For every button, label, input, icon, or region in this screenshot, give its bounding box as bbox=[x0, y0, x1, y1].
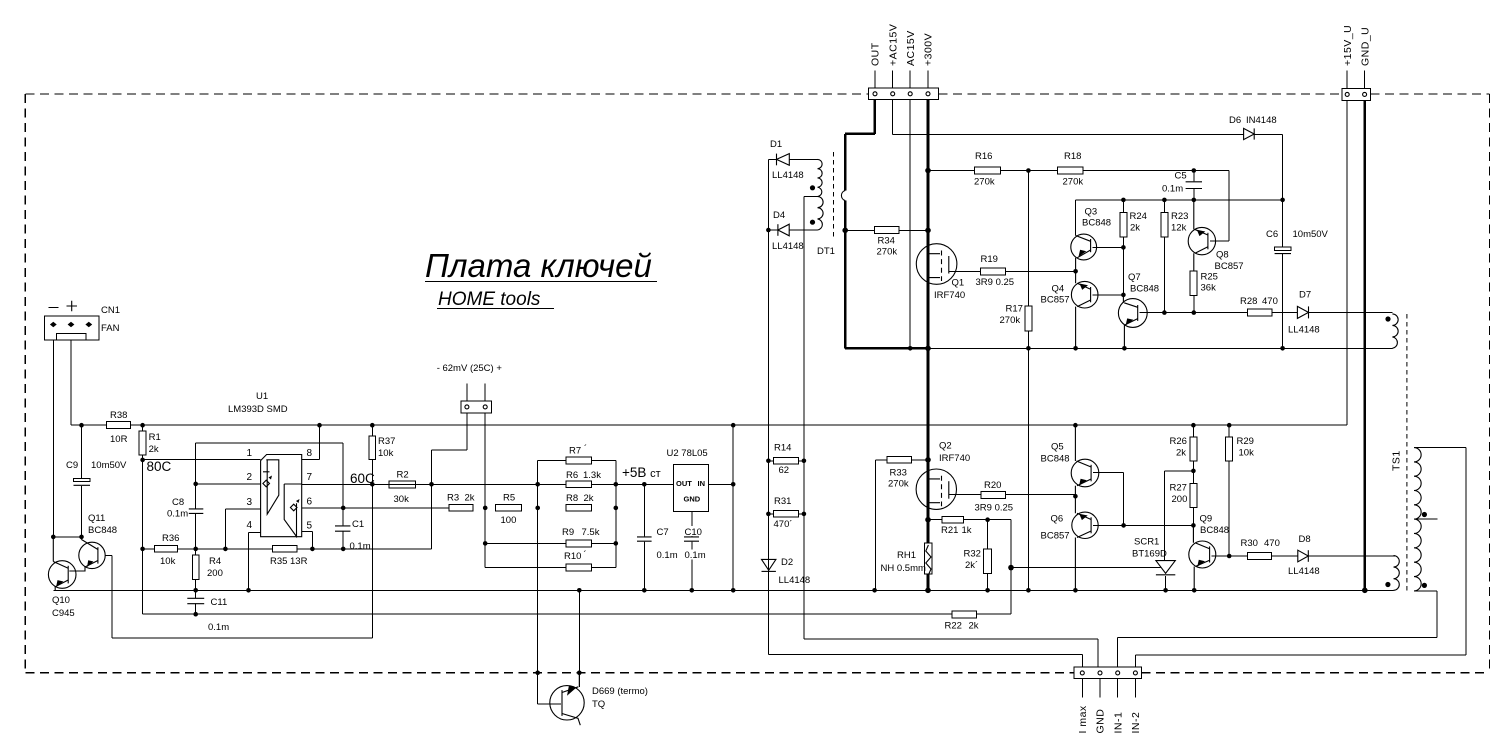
transformer TS1 secondary winding bbox=[1414, 448, 1437, 591]
wire U1 pin1 row bbox=[143, 459, 261, 461]
svg-text:Q6: Q6 bbox=[1051, 514, 1064, 525]
svg-text:13R: 13R bbox=[290, 556, 308, 567]
svg-text:C9: C9 bbox=[66, 460, 78, 471]
diode D1 LL4148 bbox=[768, 139, 817, 181]
svg-text:Q1: Q1 bbox=[952, 278, 965, 289]
svg-text:TS1: TS1 bbox=[1391, 450, 1403, 471]
svg-text:C11: C11 bbox=[211, 597, 228, 608]
capacitor C11 bbox=[187, 590, 230, 633]
svg-text:+AC15V: +AC15V bbox=[887, 24, 899, 66]
resistor R8 bbox=[566, 493, 594, 511]
capacitor C5 bbox=[1162, 171, 1203, 200]
svg-text:IN4148: IN4148 bbox=[1246, 115, 1277, 126]
svg-text:10k: 10k bbox=[378, 448, 394, 459]
wire R25 base row bbox=[1164, 312, 1247, 314]
svg-text:R6: R6 bbox=[566, 470, 578, 481]
svg-text:10k: 10k bbox=[160, 556, 176, 567]
wire R7 row bbox=[538, 461, 616, 568]
resistor R17 bbox=[1000, 171, 1032, 591]
wire +15V rail bbox=[71, 101, 1347, 426]
voltage regulator U2 78L05 bbox=[667, 448, 709, 512]
wire U2 IN column bbox=[709, 425, 734, 590]
svg-text:D6: D6 bbox=[1229, 115, 1241, 126]
resistor R25 bbox=[1190, 271, 1218, 313]
svg-text:1.3k: 1.3k bbox=[583, 470, 601, 481]
wire CN1 pin1 column bbox=[53, 340, 81, 537]
svg-text:0.1m: 0.1m bbox=[167, 509, 188, 520]
svg-text:NH 0.5mm: NH 0.5mm bbox=[881, 563, 926, 574]
svg-text:R31: R31 bbox=[774, 496, 791, 507]
svg-text:R28: R28 bbox=[1240, 296, 1257, 307]
svg-text:R10: R10 bbox=[564, 551, 581, 562]
resistor R3 bbox=[447, 493, 475, 512]
resistor R29 bbox=[1226, 425, 1254, 556]
svg-text:´: ´ bbox=[584, 550, 587, 561]
resistor R1 bbox=[139, 425, 161, 614]
svg-text:2k´: 2k´ bbox=[965, 560, 978, 571]
op-amp U1 LM393D bbox=[228, 391, 313, 537]
svg-text:BC848: BC848 bbox=[1082, 218, 1111, 229]
title Плата ключей bbox=[425, 247, 657, 284]
wire 300V bottom row bbox=[845, 347, 1392, 350]
svg-text:U2 78L05: U2 78L05 bbox=[667, 448, 708, 459]
svg-text:CN1: CN1 bbox=[101, 305, 120, 316]
svg-text:IRF740: IRF740 bbox=[934, 290, 965, 301]
wire pin2 feedback loop bbox=[196, 443, 344, 549]
wire TQ collector column bbox=[578, 590, 580, 687]
svg-text:C945: C945 bbox=[52, 608, 75, 619]
resistor R2 bbox=[389, 470, 416, 506]
resistor R5 bbox=[496, 493, 522, 527]
wire 60C base loop bbox=[105, 555, 372, 638]
transistor Q11 BC848 bbox=[69, 513, 117, 571]
svg-text:U1: U1 bbox=[256, 391, 268, 402]
svg-text:R18: R18 bbox=[1064, 151, 1081, 162]
svg-text:36k: 36k bbox=[1201, 283, 1217, 294]
svg-text:BC848: BC848 bbox=[1041, 454, 1070, 465]
diode D8 LL4148 bbox=[1288, 534, 1396, 577]
resistor R20 bbox=[975, 480, 1076, 514]
svg-text:BC848: BC848 bbox=[1200, 525, 1229, 536]
svg-text:D669 (termo): D669 (termo) bbox=[592, 686, 648, 697]
svg-text:R14: R14 bbox=[774, 443, 791, 454]
svg-text:LM393D SMD: LM393D SMD bbox=[228, 404, 288, 415]
svg-text:SCR1: SCR1 bbox=[1134, 537, 1159, 548]
svg-text:GND: GND bbox=[1095, 709, 1107, 734]
wire +15V_U column bbox=[1346, 101, 1348, 426]
svg-text:2: 2 bbox=[247, 472, 253, 483]
wire U1 pin5 bbox=[302, 532, 313, 549]
transistor Q1 IRF740 bbox=[916, 244, 980, 301]
diode D4 LL4148 bbox=[768, 210, 817, 252]
svg-text:TQ: TQ bbox=[592, 699, 605, 710]
svg-text:R26: R26 bbox=[1170, 436, 1187, 447]
resistor R24 bbox=[1120, 200, 1147, 295]
svg-text:Q2: Q2 bbox=[939, 441, 952, 452]
resistor R37 bbox=[369, 425, 396, 638]
svg-text:R19: R19 bbox=[981, 254, 998, 265]
thyristor SCR1 BT169D bbox=[1132, 537, 1175, 591]
svg-text:D8: D8 bbox=[1299, 534, 1311, 545]
resistor R36 bbox=[155, 533, 180, 567]
svg-text:7: 7 bbox=[307, 472, 313, 483]
resistor R14 bbox=[774, 443, 799, 477]
svg-text:R4: R4 bbox=[209, 556, 221, 567]
svg-text:LL4148: LL4148 bbox=[779, 575, 811, 586]
svg-text:IRF740: IRF740 bbox=[939, 453, 970, 464]
transformer TS1 feedback winding bbox=[1385, 314, 1398, 348]
capacitor C8 bbox=[167, 484, 204, 549]
svg-text:Q7: Q7 bbox=[1128, 272, 1141, 283]
svg-text:10k: 10k bbox=[1239, 448, 1255, 459]
svg-text:R1: R1 bbox=[149, 432, 161, 443]
svg-text:0.1m: 0.1m bbox=[657, 550, 678, 561]
svg-text:Q9: Q9 bbox=[1200, 514, 1213, 525]
transistor Q8 BC857 bbox=[1188, 171, 1243, 273]
wire R10 row bbox=[485, 566, 616, 568]
wire -62mV pin2 column A bbox=[485, 413, 566, 567]
wire U1 pin8 bbox=[302, 425, 320, 459]
svg-text:0.1m: 0.1m bbox=[350, 541, 371, 552]
resistor R35 bbox=[270, 546, 308, 567]
svg-text:R25: R25 bbox=[1201, 272, 1218, 283]
svg-text:Плата ключей: Плата ключей bbox=[425, 247, 652, 284]
svg-text:BC848: BC848 bbox=[88, 525, 117, 536]
wire rail3 row bbox=[143, 568, 1011, 615]
svg-text:C6: C6 bbox=[1266, 229, 1278, 240]
svg-text:D4: D4 bbox=[773, 210, 785, 221]
svg-text:IN-2: IN-2 bbox=[1130, 712, 1142, 734]
border dashed frame bbox=[25, 94, 1489, 673]
svg-text:FAN: FAN bbox=[101, 323, 120, 334]
wire R9 row bbox=[485, 542, 616, 544]
svg-text:270k: 270k bbox=[1063, 177, 1084, 188]
svg-text:- 62mV (25C) +: - 62mV (25C) + bbox=[437, 363, 503, 374]
svg-text:2k: 2k bbox=[465, 493, 475, 504]
resistor R26 bbox=[1170, 425, 1197, 483]
wire U1 pin3 bbox=[225, 509, 260, 549]
wire +5V row bbox=[372, 483, 673, 485]
svg-text:OUT: OUT bbox=[676, 479, 692, 488]
resistor R4 bbox=[192, 549, 223, 590]
connector CN2 OUT/+AC15V/AC15V/+300V bbox=[869, 24, 939, 100]
connector CN4 I max/GND/IN-1/IN-2 bbox=[1074, 667, 1142, 733]
thermistor RH1 NH 0.5mm bbox=[881, 520, 933, 591]
svg-text:IN-1: IN-1 bbox=[1112, 712, 1124, 734]
resistor R31 bbox=[774, 496, 799, 530]
transistor Q4 BC857 bbox=[1041, 271, 1124, 348]
svg-text:4: 4 bbox=[247, 520, 253, 531]
svg-text:100: 100 bbox=[501, 515, 517, 526]
resistor R18 bbox=[1058, 151, 1229, 188]
wire secondary bottom to IN-1 bbox=[1118, 591, 1437, 667]
resistor R30 bbox=[1241, 538, 1298, 559]
svg-text:Q11: Q11 bbox=[88, 513, 105, 524]
wire +300V thick column bbox=[927, 99, 930, 590]
wire rail1 inverting row bbox=[143, 484, 432, 549]
svg-text:62: 62 bbox=[779, 465, 790, 476]
svg-text:C8: C8 bbox=[172, 497, 184, 508]
svg-text:R3: R3 bbox=[447, 493, 459, 504]
resistor R16 bbox=[928, 151, 1058, 188]
svg-text:R34: R34 bbox=[878, 236, 895, 247]
svg-text:R9: R9 bbox=[562, 527, 574, 538]
svg-text:200: 200 bbox=[207, 568, 223, 579]
resistor R38 bbox=[106, 410, 130, 445]
svg-text:3: 3 bbox=[247, 497, 253, 508]
capacitor C6 bbox=[1266, 200, 1329, 348]
svg-text:470: 470 bbox=[1264, 538, 1280, 549]
svg-text:0.1m: 0.1m bbox=[685, 550, 706, 561]
svg-text:R16: R16 bbox=[975, 151, 992, 162]
wire SCR anode link bbox=[1165, 471, 1194, 561]
svg-text:3R9 0.25: 3R9 0.25 bbox=[975, 503, 1014, 514]
svg-text:10R: 10R bbox=[110, 434, 128, 445]
capacitor C1 bbox=[334, 519, 371, 552]
resistor R34 bbox=[845, 226, 928, 257]
diode D2 LL4148 bbox=[762, 557, 811, 586]
svg-text:R24: R24 bbox=[1130, 211, 1147, 222]
svg-text:Q5: Q5 bbox=[1051, 442, 1064, 453]
wire U1 pin4 bbox=[249, 533, 261, 591]
svg-text:R37: R37 bbox=[378, 436, 395, 447]
svg-text:3R9 0.25: 3R9 0.25 bbox=[976, 277, 1015, 288]
resistor R27 bbox=[1170, 483, 1197, 543]
transistor Q9 BC848 bbox=[1189, 514, 1248, 591]
svg-text:2k: 2k bbox=[969, 621, 979, 632]
resistor R10 bbox=[564, 550, 591, 571]
resistor R23 bbox=[1161, 200, 1188, 313]
svg-text:´: ´ bbox=[584, 444, 587, 455]
svg-text:HOME tools: HOME tools bbox=[438, 289, 541, 310]
svg-text:D1: D1 bbox=[770, 139, 782, 150]
wire OUT thick trace bbox=[845, 99, 875, 348]
connector CN3 +15V_U/GND_U bbox=[1342, 25, 1372, 101]
svg-text:30k: 30k bbox=[394, 494, 410, 505]
svg-text:R27: R27 bbox=[1170, 483, 1187, 494]
wire secondary top to IN-2 bbox=[1135, 448, 1466, 668]
svg-text:C1: C1 bbox=[352, 519, 364, 530]
svg-text:Q8: Q8 bbox=[1216, 250, 1229, 261]
svg-text:BC857: BC857 bbox=[1041, 531, 1070, 542]
svg-text:R29: R29 bbox=[1237, 436, 1254, 447]
svg-text:R21: R21 bbox=[941, 525, 958, 536]
svg-text:BT169D: BT169D bbox=[1132, 549, 1167, 560]
transistor Q10 C945 bbox=[48, 537, 76, 619]
svg-text:LL4148: LL4148 bbox=[772, 170, 804, 181]
svg-text:2k: 2k bbox=[1130, 223, 1140, 234]
resistor R22 bbox=[945, 611, 979, 632]
wire DT1 tap column bbox=[804, 197, 1098, 668]
svg-text:R32: R32 bbox=[964, 549, 981, 560]
diode D6 IN4148 bbox=[1229, 115, 1283, 200]
svg-text:C7: C7 bbox=[657, 527, 669, 538]
wire rail2 ground row bbox=[53, 589, 1393, 591]
wire GND_U thick column bbox=[1364, 101, 1367, 591]
wire CN1 pin2 column bbox=[70, 340, 72, 425]
svg-text:12k: 12k bbox=[1171, 223, 1187, 234]
resistor R6 bbox=[566, 470, 601, 488]
svg-text:BC857: BC857 bbox=[1215, 261, 1244, 272]
svg-text:D2: D2 bbox=[781, 557, 793, 568]
svg-text:BC848: BC848 bbox=[1130, 284, 1159, 295]
connector CN1 FAN bbox=[45, 301, 121, 340]
svg-text:R33: R33 bbox=[890, 468, 907, 479]
svg-text:200: 200 bbox=[1172, 494, 1188, 505]
svg-text:R22: R22 bbox=[945, 621, 962, 632]
svg-text:R8: R8 bbox=[566, 493, 578, 504]
node 80C bbox=[147, 459, 172, 474]
svg-text:R17: R17 bbox=[1006, 304, 1023, 315]
svg-text:470´: 470´ bbox=[774, 519, 793, 530]
svg-text:GND_U: GND_U bbox=[1359, 27, 1371, 66]
wire U1 pin6 row bbox=[302, 507, 449, 509]
svg-text:270k: 270k bbox=[1000, 315, 1021, 326]
svg-text:R38: R38 bbox=[110, 410, 127, 421]
transistor Q6 BC857 bbox=[1041, 496, 1194, 590]
svg-text:+5В ст: +5В ст bbox=[622, 465, 661, 480]
svg-text:Q4: Q4 bbox=[1052, 284, 1065, 295]
svg-text:6: 6 bbox=[307, 497, 313, 508]
wire +AC15V to D6 bbox=[893, 99, 1244, 134]
svg-text:I max: I max bbox=[1077, 705, 1089, 733]
wire D1-D4 left column bbox=[768, 159, 1082, 667]
svg-text:270k: 270k bbox=[974, 177, 995, 188]
svg-text:5: 5 bbox=[307, 521, 313, 532]
capacitor C7 bbox=[636, 484, 678, 590]
transformer TS1 core bbox=[1391, 314, 1407, 592]
node +5B ct bbox=[622, 465, 661, 480]
transistor Q7 BC848 bbox=[1118, 272, 1164, 348]
wire TQ base column bbox=[538, 484, 561, 704]
svg-text:10m50V: 10m50V bbox=[91, 460, 127, 471]
diode D7 LL4148 bbox=[1288, 290, 1392, 336]
svg-text:R2: R2 bbox=[397, 470, 409, 481]
resistor R32 bbox=[964, 520, 992, 591]
svg-text:GND: GND bbox=[684, 495, 701, 504]
svg-text:C10: C10 bbox=[685, 527, 702, 538]
transistor TQ D669 termo bbox=[550, 673, 648, 725]
svg-text:Q3: Q3 bbox=[1085, 207, 1098, 218]
transistor Q3 BC848 bbox=[1071, 207, 1124, 272]
node 60C bbox=[350, 471, 375, 486]
svg-text:0.1m: 0.1m bbox=[1162, 184, 1183, 195]
capacitor C9 bbox=[66, 425, 127, 537]
svg-text:RH1: RH1 bbox=[897, 550, 916, 561]
svg-text:2k: 2k bbox=[149, 444, 159, 455]
svg-text:0.1m: 0.1m bbox=[208, 622, 229, 633]
svg-text:8: 8 bbox=[307, 448, 313, 459]
svg-text:80C: 80C bbox=[147, 459, 172, 474]
svg-text:LL4148: LL4148 bbox=[772, 241, 804, 252]
wire Q5 Q6 emitter node bbox=[1074, 495, 1076, 497]
svg-text:OUT: OUT bbox=[870, 42, 882, 66]
svg-text:+300V: +300V bbox=[923, 33, 935, 66]
wire I max row bbox=[767, 571, 769, 654]
svg-text:LL4148: LL4148 bbox=[1288, 566, 1320, 577]
svg-text:IN: IN bbox=[698, 479, 706, 488]
wire AC15V column bbox=[909, 99, 911, 348]
resistor R19 bbox=[976, 254, 1076, 288]
svg-text:R36: R36 bbox=[162, 533, 179, 544]
wire SCR gate row bbox=[1011, 567, 1161, 569]
svg-text:R20: R20 bbox=[984, 480, 1001, 491]
svg-text:10m50V: 10m50V bbox=[1293, 229, 1329, 240]
connector -62mV (25C) bbox=[437, 363, 503, 413]
transformer TS1 primary winding bbox=[1385, 556, 1399, 591]
svg-text:2k: 2k bbox=[584, 493, 594, 504]
svg-text:DT1: DT1 bbox=[817, 246, 835, 257]
svg-text:270k: 270k bbox=[888, 479, 909, 490]
svg-text:7.5k: 7.5k bbox=[582, 527, 600, 538]
svg-text:Q10: Q10 bbox=[52, 595, 70, 606]
wire U1 pin7 output bbox=[302, 483, 373, 485]
wire R14 R31 right column bbox=[768, 461, 804, 514]
svg-text:D7: D7 bbox=[1299, 290, 1311, 301]
resistor R7 bbox=[566, 444, 591, 464]
svg-text:1k: 1k bbox=[962, 525, 972, 536]
wire -62mV pin1 path bbox=[432, 413, 467, 484]
svg-text:R5: R5 bbox=[503, 493, 515, 504]
svg-text:1: 1 bbox=[247, 448, 253, 459]
svg-text:BC857: BC857 bbox=[1041, 295, 1070, 306]
resistor R28 bbox=[1240, 296, 1297, 316]
transformer DT1 bbox=[810, 152, 845, 257]
svg-text:R35: R35 bbox=[270, 556, 287, 567]
svg-text:+15V_U: +15V_U bbox=[1342, 25, 1354, 66]
transistor Q2 IRF740 bbox=[916, 441, 981, 510]
wire rail 200 row bbox=[1076, 200, 1283, 236]
svg-text:AC15V: AC15V bbox=[905, 30, 917, 66]
capacitor C10 bbox=[683, 512, 707, 591]
svg-text:C5: C5 bbox=[1175, 171, 1187, 182]
svg-text:R23: R23 bbox=[1171, 211, 1188, 222]
transistor Q5 BC848 bbox=[1041, 425, 1124, 525]
resistor R33 bbox=[876, 456, 928, 590]
svg-text:LL4148: LL4148 bbox=[1288, 325, 1320, 336]
svg-text:R30: R30 bbox=[1241, 538, 1258, 549]
svg-text:270k: 270k bbox=[877, 247, 898, 258]
svg-text:470: 470 bbox=[1262, 296, 1278, 307]
svg-text:R7: R7 bbox=[569, 446, 581, 457]
subtitle HOME tools bbox=[437, 289, 554, 310]
resistor R21 bbox=[928, 516, 1011, 567]
resistor R9 bbox=[562, 527, 600, 547]
svg-text:2k: 2k bbox=[1176, 448, 1186, 459]
